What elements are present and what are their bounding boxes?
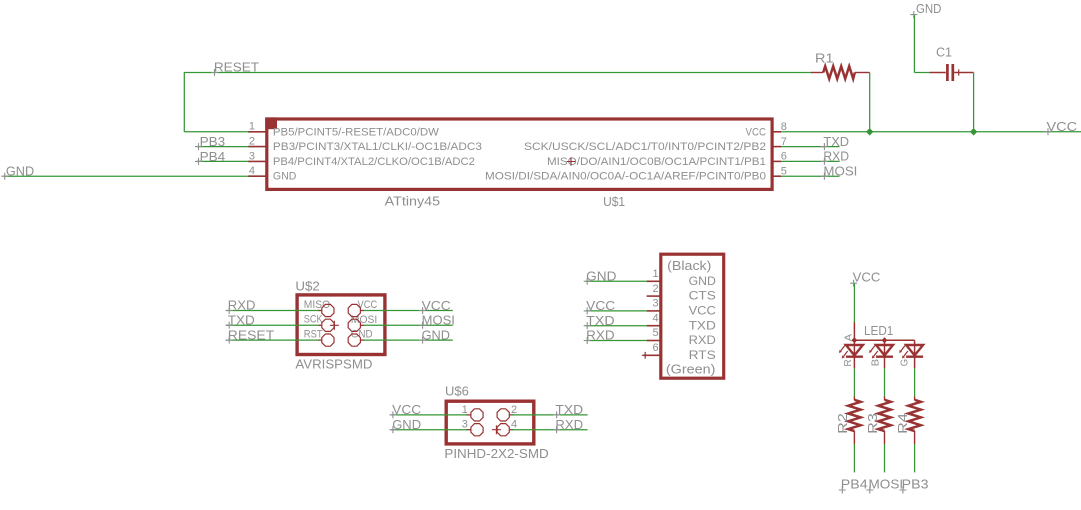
svg-text:VCC: VCC	[853, 269, 881, 284]
svg-text:B: B	[869, 359, 881, 366]
svg-text:6: 6	[652, 342, 658, 354]
wire net TXD to U$2 SCK	[226, 324, 319, 326]
MOSI label origin cross	[821, 173, 828, 180]
wire net RESET horizontal	[184, 72, 811, 74]
GND label origin cross	[1, 173, 8, 180]
svg-text:U$2: U$2	[295, 279, 319, 293]
svg-text:G: G	[899, 359, 911, 366]
resistor R4 zigzag	[908, 400, 921, 431]
capacitor C1 lead left	[930, 72, 946, 74]
PB3 label origin cross	[195, 143, 202, 150]
svg-text:(Black): (Black)	[667, 258, 711, 273]
U$2 VCC pad	[348, 304, 360, 316]
PB3 label origin cross bottom	[899, 487, 906, 494]
svg-text:PB3: PB3	[200, 134, 226, 149]
svg-text:C1: C1	[936, 44, 952, 59]
wire net VCC to J1 pin 3	[586, 310, 647, 312]
wire net TXD from pin 7	[781, 146, 840, 148]
VCC label origin cross at J1	[584, 307, 591, 314]
wire LED cathode to R4	[914, 368, 916, 396]
connector U$2 AVRISPSMD body	[297, 295, 385, 355]
U$1 pin 2 stub	[248, 146, 267, 148]
wire net RXD to J1 pin 5	[586, 340, 647, 342]
U$6 origin cross	[492, 425, 501, 434]
svg-text:3: 3	[462, 419, 468, 431]
svg-text:U$1: U$1	[603, 195, 625, 209]
J1 pin 4 stub	[647, 325, 661, 327]
wire LED cathode to R3	[884, 368, 886, 396]
svg-text:4: 4	[511, 419, 517, 431]
svg-text:2: 2	[511, 404, 517, 416]
svg-text:GND: GND	[6, 164, 34, 179]
svg-text:VCC: VCC	[689, 304, 717, 318]
capacitor C1 lead right	[954, 72, 974, 74]
resistor R1 lead right	[855, 72, 870, 74]
J1 pin 6 stub	[643, 354, 661, 356]
svg-text:(Green): (Green)	[666, 361, 716, 376]
wire net PB3 to pin 2	[197, 146, 249, 148]
wire C1 to VCC rail	[973, 73, 975, 132]
connector J1 serial header body	[661, 254, 724, 378]
svg-text:R3: R3	[865, 413, 880, 434]
GND label origin cross at J1	[584, 278, 591, 285]
J1 pin 5 stub	[647, 340, 661, 342]
J1 pin 1 stub	[647, 280, 661, 282]
svg-text:SCK: SCK	[304, 314, 323, 326]
svg-text:2: 2	[652, 283, 658, 295]
svg-text:MOSI/DI/SDA/AIN0/OC0A/-OC1A/AR: MOSI/DI/SDA/AIN0/OC0A/-OC1A/AREF/PCINT0/…	[485, 171, 766, 183]
svg-text:1: 1	[249, 121, 255, 133]
svg-text:MOSI: MOSI	[823, 164, 857, 179]
U$6 pad 2	[497, 409, 509, 421]
wire GND to C1	[914, 72, 930, 74]
wire net RXD to U$2 MISO	[226, 310, 319, 312]
U$6 pad 3	[471, 424, 483, 436]
wire net TXD from U$6 pin 2	[511, 414, 588, 416]
svg-text:RESET: RESET	[228, 327, 274, 342]
capacitor C1 plates	[946, 64, 949, 81]
VCC label origin cross at LED1	[850, 280, 857, 287]
wire net TXD to J1 pin 4	[586, 325, 647, 327]
wire net VCC from U$2 VCC	[364, 310, 453, 312]
U$1 pin 1 stub	[248, 131, 267, 133]
U$2 origin cross	[330, 321, 339, 330]
wire net RESET vertical	[183, 72, 185, 132]
svg-text:A: A	[842, 334, 854, 341]
wire net GND from U$2 GND	[364, 339, 453, 341]
svg-text:MISO/DO/AIN1/OC0B/OC1A/PCINT1/: MISO/DO/AIN1/OC0B/OC1A/PCINT1/PB1	[547, 156, 766, 168]
svg-text:4: 4	[652, 312, 658, 324]
svg-text:2: 2	[249, 136, 255, 148]
PB4 label origin cross bottom	[839, 487, 846, 494]
svg-text:1: 1	[462, 404, 468, 416]
RXD label origin cross at U$2	[226, 307, 233, 314]
U$2 SCK pad	[322, 319, 334, 331]
wire net PB4 to pin 3	[197, 160, 249, 162]
U$6 pad 1	[471, 409, 483, 421]
RXD label origin cross at U$6	[553, 426, 560, 433]
RXD label origin cross at J1	[584, 337, 591, 344]
svg-text:SCK/USCK/SCL/ADC1/T0/INT0/PCIN: SCK/USCK/SCL/ADC1/T0/INT0/PCINT2/PB2	[524, 141, 766, 153]
LED R element of LED1	[853, 340, 855, 368]
svg-text:GND: GND	[586, 269, 616, 284]
wire net VCC to U$6 pin 1	[391, 414, 467, 416]
VCC label origin cross	[1045, 128, 1052, 135]
svg-text:R: R	[842, 359, 854, 367]
U$1 pin 4 stub	[248, 175, 267, 177]
wire net GND to U$6 pin 3	[391, 429, 467, 431]
svg-text:PB5/PCINT5/-RESET/ADC0/DW: PB5/PCINT5/-RESET/ADC0/DW	[273, 126, 440, 138]
svg-text:RXD: RXD	[689, 333, 717, 347]
IC U$1 ATtiny45 body	[267, 119, 772, 189]
PB4 label origin cross	[195, 158, 202, 165]
svg-text:3: 3	[249, 150, 255, 162]
TXD label origin cross at U$6	[553, 411, 560, 418]
wire LED cathode to R2	[853, 368, 855, 396]
LED G element of LED1	[914, 340, 916, 368]
wire net GND to pin 4	[4, 175, 249, 177]
svg-text:MOSI: MOSI	[422, 313, 455, 328]
svg-text:MISO: MISO	[304, 299, 331, 311]
resistor R2 lead bottom	[853, 431, 855, 444]
wire R2 to bottom label	[853, 444, 855, 472]
LED1 anode pin stub	[853, 322, 855, 340]
J1 pin 2 stub	[647, 295, 661, 297]
resistor R2 zigzag	[848, 400, 861, 431]
wire VCC down to LED1 anode	[853, 284, 855, 323]
svg-text:CTS: CTS	[689, 289, 716, 303]
RESET label origin cross at U$2	[226, 337, 233, 344]
wire net RXD from pin 6	[781, 160, 840, 162]
J1 pin 3 stub	[647, 310, 661, 312]
svg-text:3: 3	[652, 298, 658, 310]
connector U$6 PINHD-2X2-SMD body	[446, 401, 534, 444]
junction on VCC rail at C1	[970, 128, 977, 135]
RESET label origin cross	[211, 69, 218, 76]
svg-text:MOSI: MOSI	[351, 314, 377, 326]
svg-text:GND: GND	[916, 1, 941, 16]
svg-text:R4: R4	[895, 413, 910, 434]
svg-text:GND: GND	[392, 417, 421, 432]
svg-text:U$6: U$6	[445, 384, 469, 398]
svg-text:AVRISPSMD: AVRISPSMD	[295, 357, 372, 371]
wire net MOSI from pin 5	[781, 175, 840, 177]
svg-text:1: 1	[652, 268, 658, 280]
svg-text:PB3/PCINT3/XTAL1/CLKI/-OC1B/AD: PB3/PCINT3/XTAL1/CLKI/-OC1B/ADC3	[273, 141, 482, 153]
MOSI label origin cross at U$2	[419, 322, 426, 329]
TXD label origin cross	[821, 143, 828, 150]
wire R3 to bottom label	[884, 444, 886, 472]
U$1 pin 5 stub	[772, 175, 781, 177]
svg-text:4: 4	[249, 165, 255, 177]
resistor R1 lead left	[811, 72, 823, 74]
VCC label origin cross at U$6	[389, 411, 396, 418]
LED1 anode bus	[854, 339, 914, 341]
U$2 GND pad	[348, 334, 360, 346]
svg-text:RTS: RTS	[689, 348, 716, 362]
GND label origin cross at U$6	[389, 426, 396, 433]
svg-text:VCC: VCC	[746, 126, 767, 138]
svg-text:GND: GND	[689, 274, 717, 288]
wire net RESET to U$2 RST	[226, 339, 319, 341]
U$1 origin cross	[567, 157, 575, 165]
LED1 bus junction B	[882, 337, 888, 343]
U$2 RST pad	[322, 334, 334, 346]
svg-text:5: 5	[652, 327, 658, 339]
U$2 MOSI pad	[348, 319, 360, 331]
wire net VCC rail from pin 8	[781, 131, 1081, 133]
resistor R3 lead bottom	[884, 431, 886, 444]
TXD label origin cross at J1	[584, 322, 591, 329]
junction on VCC rail at R1	[866, 128, 873, 135]
svg-text:PINHD-2X2-SMD: PINHD-2X2-SMD	[444, 447, 548, 461]
wire R1 to VCC rail	[869, 73, 871, 132]
svg-text:TXD: TXD	[689, 318, 717, 332]
TXD label origin cross at U$2	[226, 322, 233, 329]
wire net MOSI from U$2 MOSI	[364, 324, 453, 326]
svg-text:MOSI: MOSI	[869, 476, 904, 491]
resistor R3 zigzag	[878, 400, 891, 431]
LED1 bus junction A	[851, 337, 857, 343]
MOSI label origin cross bottom	[866, 487, 873, 494]
J1 RTS pin cross	[642, 352, 649, 359]
wire GND down	[913, 15, 915, 72]
resistor R4 lead top	[914, 396, 916, 400]
wire net RXD from U$6 pin 4	[511, 429, 588, 431]
U$1 pin 8 stub	[772, 131, 781, 133]
U$1 pin 6 stub	[772, 160, 781, 162]
wire R4 to bottom label	[914, 444, 916, 472]
GND label origin cross at U$2	[419, 337, 426, 344]
svg-text:VCC: VCC	[392, 402, 421, 417]
svg-text:LED1: LED1	[864, 323, 893, 338]
U$1 pin 7 stub	[772, 146, 781, 148]
VCC label origin cross at U$2	[419, 307, 426, 314]
svg-text:PB4: PB4	[200, 149, 226, 164]
wire net RESET to pin 1	[184, 131, 248, 133]
svg-text:GND: GND	[273, 171, 297, 183]
resistor R2 lead top	[853, 396, 855, 400]
svg-text:PB3: PB3	[902, 476, 929, 491]
GND top label origin cross	[910, 11, 917, 18]
U$1 pin 3 stub	[248, 160, 267, 162]
U$6 pad 4	[497, 424, 509, 436]
svg-text:RST: RST	[304, 328, 323, 340]
resistor R4 lead bottom	[914, 431, 916, 444]
RXD label origin cross	[821, 158, 828, 165]
svg-text:RESET: RESET	[214, 60, 259, 75]
svg-text:PB4/PCINT4/XTAL2/CLKO/OC1B/ADC: PB4/PCINT4/XTAL2/CLKO/OC1B/ADC2	[273, 156, 475, 168]
svg-text:PB4: PB4	[841, 476, 868, 491]
wire net GND to J1 pin 1	[586, 280, 647, 282]
svg-text:R2: R2	[835, 413, 850, 434]
resistor R1 zigzag	[823, 66, 855, 79]
svg-text:ATtiny45: ATtiny45	[385, 194, 441, 208]
U$2 MISO pad	[322, 304, 334, 316]
svg-text:R1: R1	[815, 50, 834, 65]
resistor R3 lead top	[884, 396, 886, 400]
LED B element of LED1	[884, 340, 886, 368]
capacitor C1 plus mark	[958, 69, 960, 75]
